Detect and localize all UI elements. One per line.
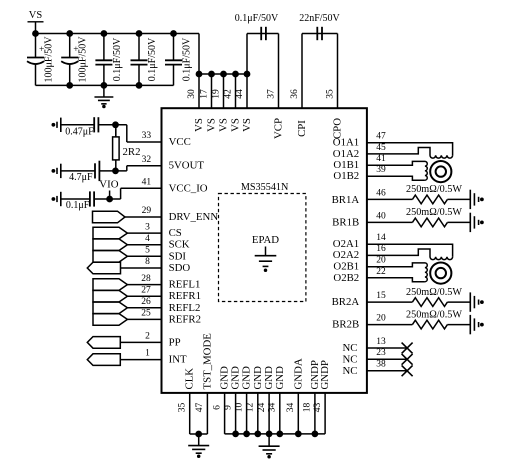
svg-text:VS: VS: [206, 118, 218, 132]
svg-text:INT: INT: [169, 354, 187, 366]
svg-text:REFR1: REFR1: [169, 290, 201, 302]
svg-text:29: 29: [142, 206, 152, 216]
svg-text:GND: GND: [252, 366, 264, 390]
svg-text:VCP: VCP: [273, 118, 285, 139]
svg-text:NC: NC: [343, 353, 358, 365]
svg-text:2: 2: [145, 331, 150, 341]
svg-text:VCC_IO: VCC_IO: [169, 182, 208, 194]
svg-text:NC: NC: [343, 365, 358, 377]
svg-text:CPI: CPI: [296, 120, 308, 137]
svg-text:VS: VS: [230, 118, 242, 132]
svg-text:34: 34: [268, 403, 278, 413]
svg-text:39: 39: [376, 165, 386, 175]
svg-text:20: 20: [376, 256, 386, 266]
svg-text:VS: VS: [241, 118, 253, 132]
svg-text:SDO: SDO: [169, 262, 191, 274]
svg-text:O1A1: O1A1: [333, 137, 359, 149]
svg-text:20: 20: [376, 314, 386, 324]
svg-text:45: 45: [376, 143, 386, 153]
svg-text:4: 4: [145, 234, 150, 244]
svg-text:BR1A: BR1A: [332, 194, 360, 206]
svg-text:35: 35: [326, 89, 336, 99]
svg-text:VS: VS: [218, 118, 230, 132]
svg-text:250mΩ/0.5W: 250mΩ/0.5W: [406, 207, 462, 218]
svg-text:18: 18: [303, 403, 313, 413]
svg-text:O2A2: O2A2: [333, 249, 359, 261]
svg-text:10: 10: [234, 403, 244, 413]
svg-text:VIO: VIO: [99, 179, 118, 191]
svg-text:5: 5: [145, 246, 150, 256]
svg-text:SCK: SCK: [169, 239, 190, 251]
svg-text:100μF/50V: 100μF/50V: [78, 36, 89, 83]
svg-text:0.1μF/50V: 0.1μF/50V: [147, 37, 158, 81]
svg-text:4.7μF: 4.7μF: [69, 172, 93, 183]
svg-text:17: 17: [200, 89, 210, 99]
svg-text:TST_MODE: TST_MODE: [201, 333, 213, 390]
svg-text:GNDP: GNDP: [319, 360, 331, 389]
svg-text:47: 47: [376, 132, 386, 142]
svg-text:250mΩ/0.5W: 250mΩ/0.5W: [406, 287, 462, 298]
svg-text:9: 9: [223, 405, 233, 410]
svg-text:2R2: 2R2: [123, 146, 141, 158]
svg-text:8: 8: [145, 257, 150, 267]
svg-text:12: 12: [246, 403, 256, 413]
svg-text:GNDA: GNDA: [292, 358, 304, 389]
svg-text:3: 3: [145, 222, 150, 232]
svg-text:13: 13: [376, 337, 386, 347]
svg-text:5VOUT: 5VOUT: [169, 160, 205, 172]
svg-text:37: 37: [267, 89, 277, 99]
svg-text:16: 16: [376, 244, 386, 254]
svg-text:CS: CS: [169, 227, 182, 239]
svg-text:14: 14: [376, 233, 386, 243]
svg-text:43: 43: [313, 403, 323, 413]
svg-text:GND: GND: [274, 366, 286, 390]
svg-text:VCC: VCC: [169, 136, 191, 148]
svg-text:23: 23: [376, 348, 386, 358]
svg-text:26: 26: [141, 297, 151, 307]
svg-text:0.1μF: 0.1μF: [66, 200, 90, 211]
svg-text:0.1μF/50V: 0.1μF/50V: [112, 37, 123, 81]
svg-text:28: 28: [141, 274, 151, 284]
svg-text:REFL2: REFL2: [169, 302, 201, 314]
svg-text:BR2A: BR2A: [332, 296, 360, 308]
svg-text:REFR2: REFR2: [169, 313, 201, 325]
svg-text:6: 6: [212, 405, 222, 410]
svg-text:O2B1: O2B1: [333, 261, 359, 273]
svg-text:NC: NC: [343, 342, 358, 354]
svg-text:1: 1: [145, 349, 150, 359]
svg-text:46: 46: [376, 188, 386, 198]
svg-text:0.1μF/50V: 0.1μF/50V: [235, 13, 279, 24]
svg-text:15: 15: [376, 291, 386, 301]
svg-text:O1A2: O1A2: [333, 148, 359, 160]
svg-text:47: 47: [195, 403, 205, 413]
svg-text:41: 41: [376, 154, 386, 164]
svg-text:27: 27: [141, 285, 151, 295]
svg-text:0.47μF: 0.47μF: [65, 126, 94, 137]
svg-text:PP: PP: [169, 336, 181, 348]
svg-text:SDI: SDI: [169, 250, 187, 262]
svg-text:38: 38: [376, 360, 386, 370]
svg-text:24: 24: [257, 403, 267, 413]
svg-text:O2B2: O2B2: [333, 272, 359, 284]
svg-text:33: 33: [142, 131, 152, 141]
svg-text:250mΩ/0.5W: 250mΩ/0.5W: [406, 309, 462, 320]
svg-text:VS: VS: [29, 10, 43, 21]
svg-text:25: 25: [141, 309, 151, 319]
svg-text:22: 22: [376, 267, 386, 277]
svg-text:19: 19: [212, 89, 222, 99]
svg-text:GND: GND: [241, 366, 253, 390]
svg-text:22nF/50V: 22nF/50V: [299, 13, 340, 24]
svg-text:41: 41: [142, 178, 152, 188]
svg-text:34: 34: [286, 403, 296, 413]
svg-text:36: 36: [290, 89, 300, 99]
svg-text:30: 30: [187, 89, 197, 99]
svg-text:REFL1: REFL1: [169, 279, 201, 291]
svg-text:42: 42: [224, 89, 234, 99]
svg-text:40: 40: [376, 211, 386, 221]
svg-text:BR1B: BR1B: [332, 216, 359, 228]
svg-text:35: 35: [177, 403, 187, 413]
svg-text:BR2B: BR2B: [332, 319, 359, 331]
svg-text:32: 32: [142, 155, 152, 165]
svg-text:O1B2: O1B2: [333, 170, 359, 182]
svg-text:250mΩ/0.5W: 250mΩ/0.5W: [406, 184, 462, 195]
svg-text:0.1μF/50V: 0.1μF/50V: [182, 37, 193, 81]
svg-text:44: 44: [235, 89, 245, 99]
svg-text:VS: VS: [193, 118, 205, 132]
svg-text:100μF/50V: 100μF/50V: [44, 36, 55, 83]
svg-text:DRV_ENN: DRV_ENN: [169, 211, 219, 223]
svg-text:EPAD: EPAD: [252, 234, 279, 246]
svg-text:MS35541N: MS35541N: [241, 182, 289, 193]
svg-text:CLK: CLK: [184, 368, 196, 390]
